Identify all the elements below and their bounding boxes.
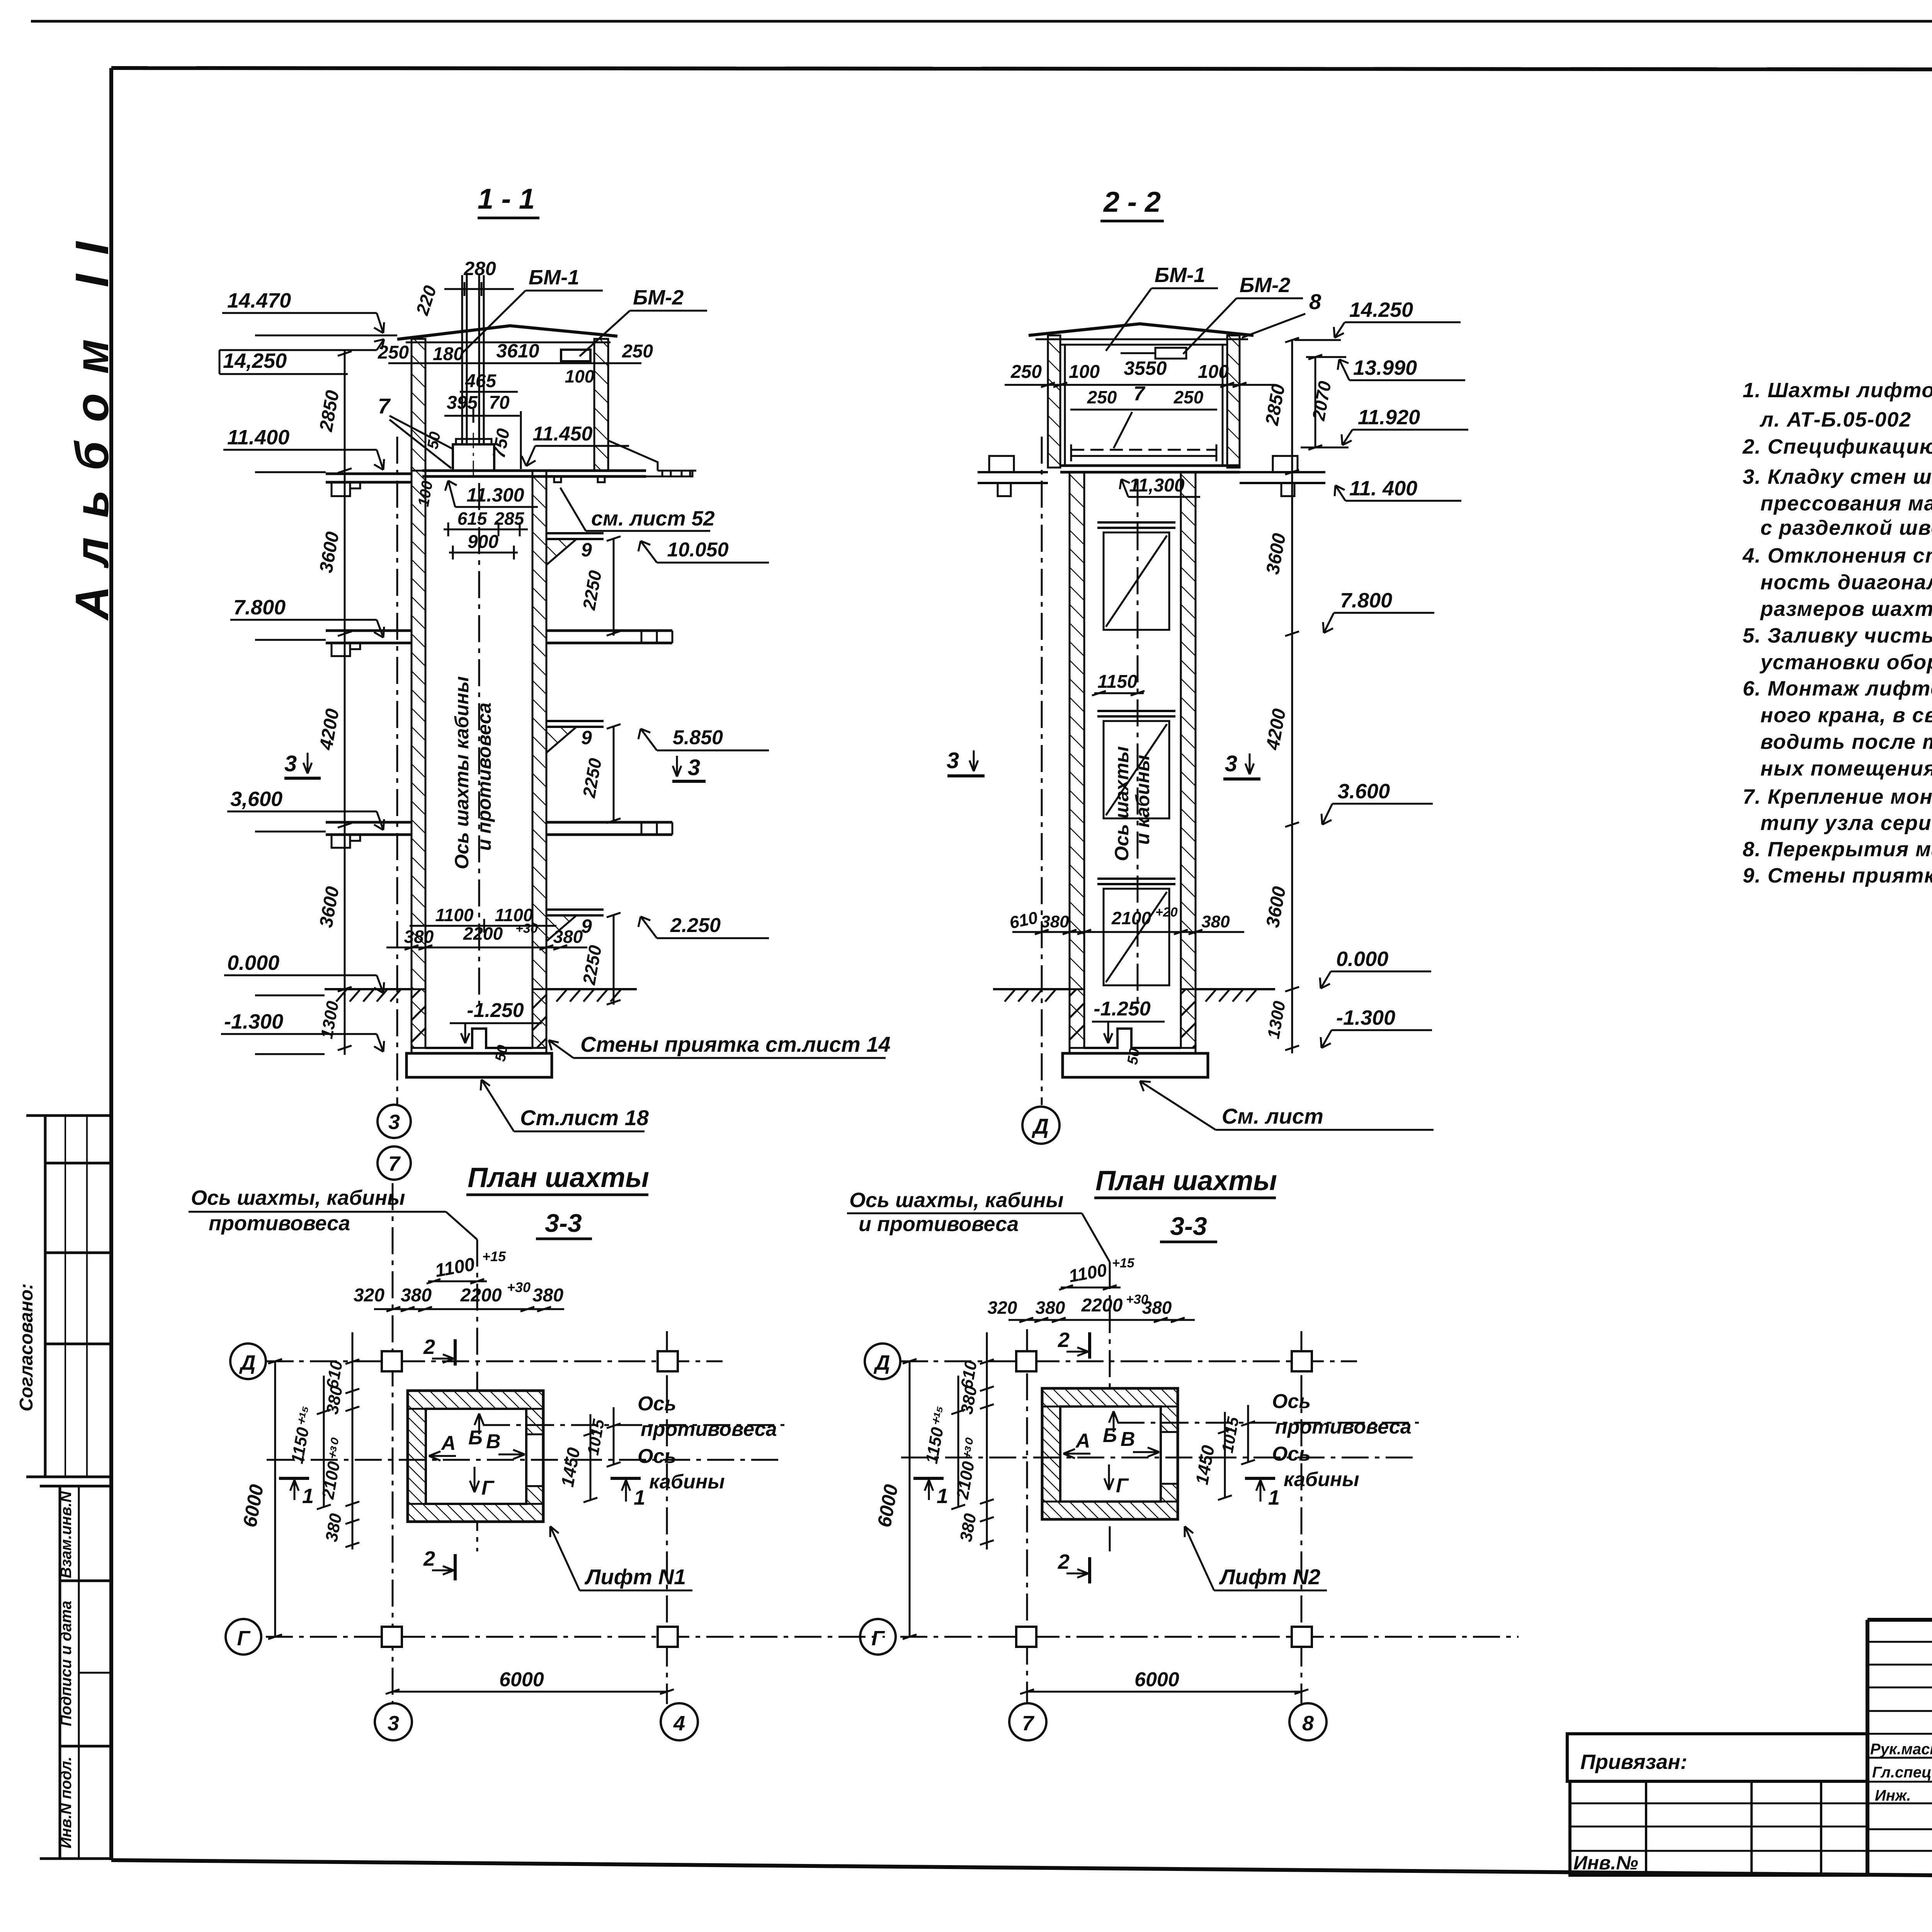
- svg-text:2: 2: [1058, 1328, 1070, 1352]
- shaft right wall pit part: [532, 989, 546, 1048]
- notes text block: [1742, 379, 1932, 887]
- svg-text:Д: Д: [239, 1351, 256, 1374]
- svg-text:6. Монтаж лифтов производить: 6. Монтаж лифтов производить укрупненным…: [1743, 677, 1932, 700]
- ceiling line 2-2: [1060, 344, 1227, 346]
- svg-text:и противовеса: и противовеса: [473, 702, 495, 851]
- svg-text:-1.250: -1.250: [467, 999, 524, 1022]
- svg-text:615: 615: [457, 509, 488, 529]
- svg-text:14.250: 14.250: [1349, 298, 1413, 321]
- svg-text:7: 7: [388, 1152, 401, 1175]
- svg-text:ных помещениях: ных помещениях: [1760, 757, 1932, 780]
- svg-text:11.450: 11.450: [532, 423, 592, 445]
- svg-text:380: 380: [401, 1285, 432, 1306]
- svg-text:380: 380: [1142, 1298, 1172, 1318]
- plan 2 section mark 1 left: [913, 1478, 948, 1508]
- svg-text:Ось шахты, кабины: Ось шахты, кабины: [191, 1186, 405, 1209]
- door opening level 11.400: [1097, 522, 1175, 630]
- svg-text:11. 400: 11. 400: [1349, 477, 1417, 500]
- svg-text:Согласовано:: Согласовано:: [16, 1283, 37, 1412]
- svg-text:Д: Д: [874, 1351, 890, 1374]
- section cut 3 left of 2-2: [947, 748, 985, 776]
- plan 2 circle Г: [860, 1619, 896, 1655]
- svg-text:-1.250: -1.250: [1094, 998, 1151, 1020]
- svg-text:Б: Б: [1103, 1424, 1117, 1447]
- dims 610 380 2100 380: [1008, 905, 1244, 934]
- svg-text:Гл.спец.: Гл.спец.: [1872, 1764, 1932, 1781]
- svg-text:Ось шахты, кабины: Ось шахты, кабины: [849, 1189, 1064, 1212]
- plan 1 grid axis Г horizontal: [266, 1636, 885, 1638]
- beam БМ plate 2-2: [1155, 348, 1186, 359]
- svg-text:0.000: 0.000: [1336, 947, 1388, 971]
- svg-text:3-3: 3-3: [1170, 1212, 1207, 1240]
- svg-text:водить после транспортировки: водить после транспортировки оборудовани…: [1760, 730, 1932, 753]
- machine floor slab 2-2: [1060, 464, 1240, 467]
- plan 1 circle Г: [226, 1619, 261, 1655]
- plan 1 grid axis Д horizontal: [266, 1361, 723, 1362]
- plan 2 section mark 2 bottom: [1058, 1550, 1090, 1583]
- pit floor and sump: [425, 1029, 532, 1048]
- plan 2 circle Д: [865, 1344, 900, 1379]
- svg-text:В: В: [1121, 1428, 1135, 1451]
- dim 1100 1100 above pit: [386, 905, 587, 950]
- machine room right wall 2-2: [1227, 335, 1240, 468]
- plan 2 horizontal dim 6000: [1027, 1691, 1301, 1693]
- monorail pedestal: [456, 439, 492, 444]
- svg-text:3: 3: [388, 1712, 399, 1735]
- svg-text:320: 320: [354, 1285, 384, 1306]
- pit floor and sump 2-2: [1084, 1029, 1181, 1048]
- svg-text:8: 8: [1309, 289, 1321, 314]
- plan 2 circle 8 bottom: [1289, 1703, 1327, 1740]
- svg-text:180: 180: [433, 344, 464, 364]
- machine room right wall: [594, 339, 608, 471]
- level mark 11.400 left: [223, 426, 384, 472]
- shaft left wall pit part: [412, 989, 425, 1048]
- svg-text:1: 1: [634, 1486, 645, 1509]
- svg-text:4: 4: [673, 1712, 685, 1735]
- svg-text:2: 2: [423, 1335, 435, 1359]
- svg-text:465: 465: [465, 371, 497, 391]
- svg-text:ного крана, в связи с эти: ного крана, в связи с этим устройства пе…: [1760, 704, 1932, 727]
- level mark 11.920: [1301, 406, 1468, 447]
- title block grid: [1867, 1620, 1932, 1879]
- plan 2 counterweight axis: [1117, 1422, 1419, 1424]
- svg-text:380: 380: [404, 927, 434, 947]
- level mark -1.300 left: [221, 1010, 384, 1054]
- plan 1 circle 4 bottom: [661, 1703, 698, 1740]
- svg-text:250: 250: [1010, 362, 1042, 382]
- svg-text:План шахты: План шахты: [468, 1162, 649, 1193]
- plan 1 section mark 2 top: [423, 1335, 455, 1366]
- plan 1 section mark 1 right: [611, 1478, 645, 1509]
- svg-text:Рук.маст.: Рук.маст.: [1870, 1741, 1932, 1758]
- svg-text:2.250: 2.250: [670, 914, 721, 937]
- svg-text:-1.300: -1.300: [224, 1010, 283, 1033]
- svg-text:9. Стены приятков шахт: 9. Стены приятков шахт лифтов см. лист 1…: [1743, 864, 1932, 887]
- svg-text:Б: Б: [468, 1427, 483, 1449]
- level mark 7.800 right: [1323, 589, 1434, 633]
- svg-text:3: 3: [388, 1111, 400, 1134]
- machine room ceiling dim line: [388, 362, 641, 364]
- grid circle 3 below section 1-1: [378, 1105, 411, 1138]
- right slab 11.400 2-2: [1240, 456, 1325, 496]
- svg-text:50: 50: [492, 1044, 511, 1063]
- level mark 13.990: [1306, 356, 1465, 380]
- svg-text:Ось: Ось: [638, 1393, 676, 1415]
- plan 2 grid axis Г horizontal: [900, 1636, 1519, 1638]
- svg-text:100: 100: [1198, 362, 1229, 382]
- svg-text:Взам.инв.N: Взам.инв.N: [58, 1491, 75, 1578]
- svg-text:7: 7: [378, 394, 391, 418]
- building axis Д line: [1041, 437, 1043, 1105]
- svg-text:установки оборудования и п: установки оборудования и прокладки труб …: [1759, 651, 1932, 674]
- svg-text:+30: +30: [515, 921, 538, 936]
- svg-text:50: 50: [1124, 1047, 1143, 1066]
- svg-text:противовеса: противовеса: [641, 1418, 777, 1440]
- svg-text:3: 3: [947, 748, 959, 773]
- svg-text:1: 1: [937, 1485, 948, 1508]
- svg-text:1150: 1150: [1097, 672, 1138, 692]
- svg-text:14.470: 14.470: [227, 289, 291, 312]
- svg-text:1. Шахты лифтов N1 и 2 разра: 1. Шахты лифтов N1 и 2 разработаны в соо…: [1743, 379, 1932, 402]
- svg-text:250: 250: [1087, 387, 1117, 407]
- svg-text:10.050: 10.050: [667, 539, 728, 561]
- svg-text:+15: +15: [482, 1248, 506, 1264]
- plan 1 vertical dim 6000: [274, 1361, 276, 1637]
- shaft axis 2-2: [1137, 479, 1139, 1005]
- svg-text:7: 7: [1134, 383, 1146, 405]
- floor slab level 7.800: [326, 631, 672, 656]
- svg-text:1 - 1: 1 - 1: [478, 183, 535, 215]
- wing slab level 10.050: [546, 533, 769, 636]
- svg-text:А: А: [1075, 1430, 1090, 1452]
- svg-text:Инж.: Инж.: [1875, 1787, 1911, 1804]
- plan 2 circle 7 bottom: [1009, 1703, 1046, 1740]
- svg-text:1: 1: [302, 1485, 314, 1508]
- svg-text:Ось: Ось: [638, 1445, 676, 1468]
- svg-text:5. Заливку чистых полов в: 5. Заливку чистых полов в машинных помещ…: [1743, 624, 1932, 647]
- svg-text:В: В: [486, 1430, 501, 1453]
- svg-text:9: 9: [581, 539, 592, 561]
- plan 2 section mark 1 right: [1245, 1478, 1280, 1509]
- svg-text:320: 320: [988, 1298, 1017, 1318]
- shaft left wall 2-2: [1070, 472, 1084, 989]
- svg-text:Г: Г: [1116, 1475, 1129, 1497]
- monorail dashed line 2-2: [1071, 449, 1216, 451]
- svg-text:ность диагоналей в плане н: ность диагоналей в плане не более 25мм. …: [1760, 571, 1932, 594]
- svg-text:3. Кладку стен шахты выполня: 3. Кладку стен шахты выполнять из полнот…: [1743, 465, 1932, 488]
- svg-text:3610: 3610: [496, 340, 539, 362]
- section cut 3 left of 1-1: [284, 751, 321, 778]
- door opening level 7.800: [1097, 711, 1175, 818]
- wing slab level 2.250: [546, 910, 769, 1005]
- drawing frame: [111, 68, 1932, 70]
- svg-text:8: 8: [1302, 1712, 1314, 1735]
- foundation slab: [406, 1053, 552, 1077]
- plan 1 left rotated dims: [317, 1332, 359, 1549]
- shaft left wall pit 2-2: [1070, 989, 1084, 1048]
- svg-text:50: 50: [424, 430, 444, 450]
- plan 2 shaft center axis: [1109, 1262, 1111, 1551]
- level mark 11.400 right: [1335, 477, 1461, 501]
- svg-text:3,600: 3,600: [230, 787, 282, 811]
- door opening level 3.600: [1097, 879, 1175, 985]
- svg-text:2. Спецификацию элементов раз: 2. Спецификацию элементов развертки стен…: [1742, 435, 1932, 458]
- svg-text:7: 7: [1022, 1712, 1035, 1735]
- svg-text:13.990: 13.990: [1353, 356, 1417, 379]
- plan 2 shaft walls: [1042, 1388, 1178, 1519]
- plan 2 columns: [1016, 1351, 1036, 1371]
- plan 1 section mark 2 bottom: [423, 1547, 455, 1580]
- grid circle Д below 2-2: [1022, 1107, 1060, 1144]
- svg-text:Привязан:: Привязан:: [1580, 1750, 1687, 1774]
- svg-text:Д: Д: [1032, 1114, 1049, 1138]
- level mark 0.000 right: [1320, 947, 1431, 988]
- section cut 3 right of 1-1: [672, 755, 706, 781]
- svg-text:3: 3: [284, 751, 297, 776]
- left parapet 11.400 2-2: [978, 456, 1048, 496]
- svg-text:и кабины: и кабины: [1132, 755, 1153, 845]
- svg-text:11.920: 11.920: [1358, 406, 1420, 429]
- plan 1 top dims 320 380 2200 380: [354, 1279, 564, 1311]
- wing slab level 5.850: [546, 721, 769, 823]
- svg-text:см. лист 52: см. лист 52: [591, 507, 715, 530]
- svg-text:л. АТ-Б.05-002: л. АТ-Б.05-002: [1759, 408, 1911, 431]
- svg-text:2 - 2: 2 - 2: [1103, 186, 1161, 218]
- right eaves bracket: [608, 440, 696, 476]
- level mark 14.470: [222, 289, 397, 335]
- svg-text:+20: +20: [1155, 905, 1178, 920]
- svg-text:11.400: 11.400: [227, 426, 289, 449]
- svg-text:2200: 2200: [460, 1285, 502, 1306]
- plan 1 dim 1015: [613, 1407, 615, 1464]
- svg-text:Подписи и дата: Подписи и дата: [58, 1601, 75, 1726]
- svg-text:Лифт N2: Лифт N2: [1219, 1565, 1320, 1589]
- svg-text:Альбом II: Альбом II: [66, 223, 118, 621]
- svg-text:+30: +30: [507, 1279, 531, 1295]
- svg-text:380: 380: [1201, 912, 1230, 931]
- plan 2 section mark 2 top: [1058, 1328, 1090, 1359]
- svg-text:1: 1: [1268, 1486, 1280, 1509]
- svg-text:2: 2: [423, 1547, 435, 1570]
- level mark 0.000 left: [224, 951, 384, 995]
- svg-text:БМ-2: БМ-2: [633, 286, 684, 309]
- level mark 7.800 left: [230, 596, 384, 640]
- svg-text:прессования марки 75 на цемен: прессования марки 75 на цементном раство…: [1760, 492, 1932, 515]
- plan 1 grid axis 3 vertical: [392, 1183, 394, 1703]
- svg-text:типу узла серии 1.489.1 в: типу узла серии 1.489.1 выпуск 1 лист 67: [1760, 811, 1932, 835]
- svg-text:БМ-2: БМ-2: [1240, 274, 1290, 297]
- svg-text:кабины: кабины: [649, 1471, 725, 1493]
- svg-text:Г: Г: [871, 1627, 885, 1650]
- left margin lower table (stamp column): [60, 1486, 111, 1859]
- level mark 3.600 right: [1321, 780, 1433, 825]
- svg-text:3550: 3550: [1124, 357, 1167, 379]
- svg-text:7.800: 7.800: [233, 596, 286, 619]
- svg-text:противовеса: противовеса: [1275, 1416, 1412, 1438]
- dims 250 7 250: [1070, 383, 1217, 448]
- right dim chain 2-2: [1285, 338, 1322, 1053]
- plan 2 vertical dim 6000: [909, 1361, 911, 1637]
- plan 2 dim 1450: [1224, 1412, 1226, 1498]
- left dimension chain 1-1: [338, 350, 352, 1055]
- svg-text:3.600: 3.600: [1338, 780, 1390, 803]
- plan 1 shaft walls: [408, 1391, 543, 1522]
- shaft right wall 2-2: [1181, 472, 1196, 989]
- svg-text:380: 380: [553, 927, 583, 947]
- plan 2 left rotated dims: [951, 1332, 994, 1549]
- svg-text:+15: +15: [1112, 1256, 1135, 1270]
- svg-text:БМ-1: БМ-1: [1155, 264, 1205, 287]
- plan 2 grid axis Д horizontal: [900, 1361, 1357, 1362]
- ground line 0.000 2-2: [993, 989, 1275, 1002]
- svg-text:См. лист: См. лист: [1222, 1104, 1323, 1128]
- shaft right wall pit 2-2: [1181, 989, 1196, 1048]
- svg-text:Ось шахты кабины: Ось шахты кабины: [451, 676, 473, 869]
- svg-text:2100: 2100: [1111, 908, 1151, 928]
- svg-text:Ось шахты: Ось шахты: [1111, 746, 1133, 861]
- svg-text:6000: 6000: [499, 1668, 544, 1691]
- svg-text:-1.300: -1.300: [1336, 1006, 1395, 1029]
- plan 1 counterweight axis: [483, 1424, 784, 1426]
- svg-text:размеров шахты в любом сече: размеров шахты в любом сечении не должны…: [1760, 597, 1932, 621]
- svg-text:8. Перекрытия машинных пом: 8. Перекрытия машинных помещений лифтов …: [1743, 838, 1932, 861]
- svg-text:Ось: Ось: [1272, 1390, 1311, 1413]
- plan 1 columns: [382, 1351, 402, 1371]
- level mark 3,600 left: [227, 787, 384, 832]
- machine room roof: [397, 326, 617, 339]
- shaft left wall: [412, 471, 425, 989]
- svg-text:БМ-1: БМ-1: [529, 266, 579, 289]
- svg-text:с разделкой швов внутренне: с разделкой швов внутренней поверхности …: [1760, 516, 1932, 539]
- shaft right wall: [532, 471, 546, 989]
- svg-text:1100: 1100: [435, 905, 474, 925]
- svg-text:5.850: 5.850: [673, 726, 723, 749]
- plan 2 grid axis 7 vertical: [1026, 1329, 1028, 1703]
- svg-text:7. Крепление монорельсов к: 7. Крепление монорельсов к перекрытию ма…: [1743, 785, 1932, 808]
- svg-text:Ст.лист 18: Ст.лист 18: [520, 1105, 649, 1130]
- machine room left wall: [412, 339, 425, 471]
- svg-text:3: 3: [688, 755, 700, 780]
- plan 2 grid axis 8 vertical: [1301, 1331, 1303, 1703]
- svg-text:Лифт N1: Лифт N1: [584, 1565, 686, 1589]
- svg-text:План шахты: План шахты: [1095, 1165, 1277, 1196]
- svg-text:А: А: [440, 1432, 456, 1454]
- plan 2 top dims 320 380 2200 380: [988, 1292, 1195, 1322]
- svg-text:380: 380: [532, 1285, 563, 1306]
- svg-text:0.000: 0.000: [227, 951, 279, 975]
- svg-text:380: 380: [1036, 1298, 1065, 1318]
- plan 1 circle Д: [230, 1344, 266, 1379]
- grid circle 7 below section 1-1: [378, 1146, 411, 1180]
- sheet top edge line: [31, 20, 1932, 23]
- level mark -1.300 right: [1321, 1006, 1432, 1048]
- svg-text:Ось: Ось: [1272, 1443, 1311, 1465]
- svg-text:Г: Г: [237, 1627, 251, 1650]
- svg-text:противовеса: противовеса: [209, 1212, 350, 1235]
- foundation slab 2-2: [1063, 1053, 1208, 1077]
- svg-text:Стены приятка ст.лист 14: Стены приятка ст.лист 14: [580, 1032, 891, 1056]
- floor slab level 3.600: [326, 822, 672, 848]
- ground line 0.000: [325, 989, 637, 1002]
- svg-text:380: 380: [1041, 912, 1069, 931]
- plan 1 horizontal dim 6000: [393, 1691, 667, 1693]
- svg-text:3-3: 3-3: [545, 1209, 582, 1237]
- svg-text:100: 100: [1069, 362, 1100, 382]
- plan 1 dim 1450: [590, 1414, 592, 1500]
- machine room left wall 2-2: [1048, 335, 1060, 468]
- svg-text:100: 100: [565, 366, 595, 386]
- plan 1 shaft center axis: [476, 1240, 478, 1551]
- svg-text:кабины: кабины: [1284, 1468, 1359, 1491]
- svg-text:Инв.№: Инв.№: [1573, 1852, 1638, 1874]
- plan 1 cabin axis horizontal: [267, 1459, 784, 1461]
- svg-text:Г: Г: [481, 1477, 495, 1499]
- plan 1 circle 3 bottom: [375, 1703, 412, 1740]
- svg-text:2200: 2200: [1081, 1295, 1123, 1316]
- machine room roof 2-2: [1029, 324, 1253, 335]
- svg-text:4. Отклонения стен от верти: 4. Отклонения стен от вертикальной плоск…: [1742, 544, 1932, 567]
- level mark 14,250: [219, 339, 384, 374]
- Привязан box: [1567, 1734, 1867, 1781]
- svg-text:6000: 6000: [1134, 1668, 1179, 1691]
- monorail rails: [461, 275, 463, 444]
- tie-in table: [1570, 1781, 1867, 1875]
- svg-text:9: 9: [581, 727, 592, 748]
- svg-text:14,250: 14,250: [223, 349, 287, 372]
- svg-text:3: 3: [1225, 751, 1237, 776]
- svg-text:250: 250: [1173, 387, 1204, 407]
- svg-text:70: 70: [489, 393, 510, 413]
- left margin upper table (Согласовано): [26, 1114, 45, 1117]
- svg-text:7.800: 7.800: [1340, 589, 1392, 612]
- shaft axis line: [478, 483, 480, 1005]
- dims 250 100 3550 100: [1005, 357, 1275, 387]
- building axis line: [396, 437, 398, 1104]
- svg-text:900: 900: [468, 532, 498, 552]
- plan 2 cabin axis horizontal: [901, 1457, 1419, 1459]
- floor slab 11.400 left: [326, 473, 412, 475]
- svg-text:250: 250: [622, 341, 653, 362]
- svg-text:11.300: 11.300: [466, 484, 524, 506]
- plan 2 dim 1015: [1247, 1405, 1249, 1462]
- level mark 14.250 right: [1294, 298, 1461, 340]
- plan 1 section mark 1 left: [279, 1478, 314, 1508]
- svg-text:Инв.N подл.: Инв.N подл.: [58, 1757, 75, 1849]
- svg-text:и противовеса: и противовеса: [859, 1213, 1019, 1236]
- machine room floor slab: [422, 469, 646, 472]
- svg-text:2: 2: [1058, 1550, 1070, 1573]
- beam БМ-2 in plan: [561, 350, 590, 361]
- plan 1 grid axis 4 vertical: [666, 1331, 668, 1704]
- slab clips: [554, 476, 561, 482]
- section cut 3 right of 2-2: [1223, 751, 1260, 779]
